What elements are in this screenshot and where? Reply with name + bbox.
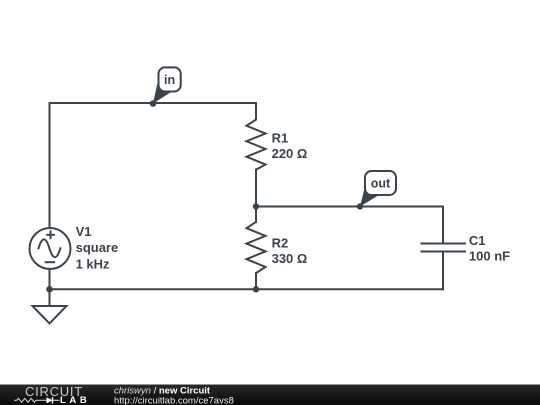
footer bar [0, 384, 540, 405]
svg-text:220 Ω: 220 Ω [272, 146, 308, 161]
svg-text:square: square [76, 240, 119, 255]
wire [255, 273, 257, 289]
voltage source V1 [30, 228, 71, 269]
resistor R1 [247, 120, 266, 170]
flag out [360, 171, 396, 207]
junction V1 ground [46, 286, 53, 293]
svg-text:C1: C1 [469, 233, 486, 248]
svg-text:100 nF: 100 nF [469, 248, 510, 263]
logo resistor [14, 398, 47, 402]
wire [255, 170, 257, 222]
svg-text:R2: R2 [272, 235, 289, 250]
wire [50, 103, 257, 228]
resistor R2 [247, 222, 266, 273]
logo diode [47, 397, 53, 403]
junction R1-R2-out [253, 203, 259, 209]
svg-text:in: in [164, 73, 175, 87]
ground [33, 306, 67, 324]
node in junction dot [150, 100, 157, 107]
svg-text:1 kHz: 1 kHz [76, 256, 110, 271]
junction R2 bottom [253, 286, 259, 292]
svg-text:LAB: LAB [60, 395, 90, 405]
node out junction dot [357, 203, 363, 209]
svg-text:V1: V1 [76, 224, 92, 239]
svg-text:R1: R1 [272, 130, 289, 145]
wire [256, 206, 443, 208]
wire [50, 288, 444, 290]
wire [49, 269, 51, 306]
wire [255, 103, 257, 120]
svg-text:330 Ω: 330 Ω [272, 251, 308, 266]
flag in [153, 67, 181, 103]
svg-text:out: out [371, 177, 391, 191]
svg-text:http://circuitlab.com/ce7avs8: http://circuitlab.com/ce7avs8 [114, 395, 234, 405]
capacitor C1 [422, 207, 466, 290]
